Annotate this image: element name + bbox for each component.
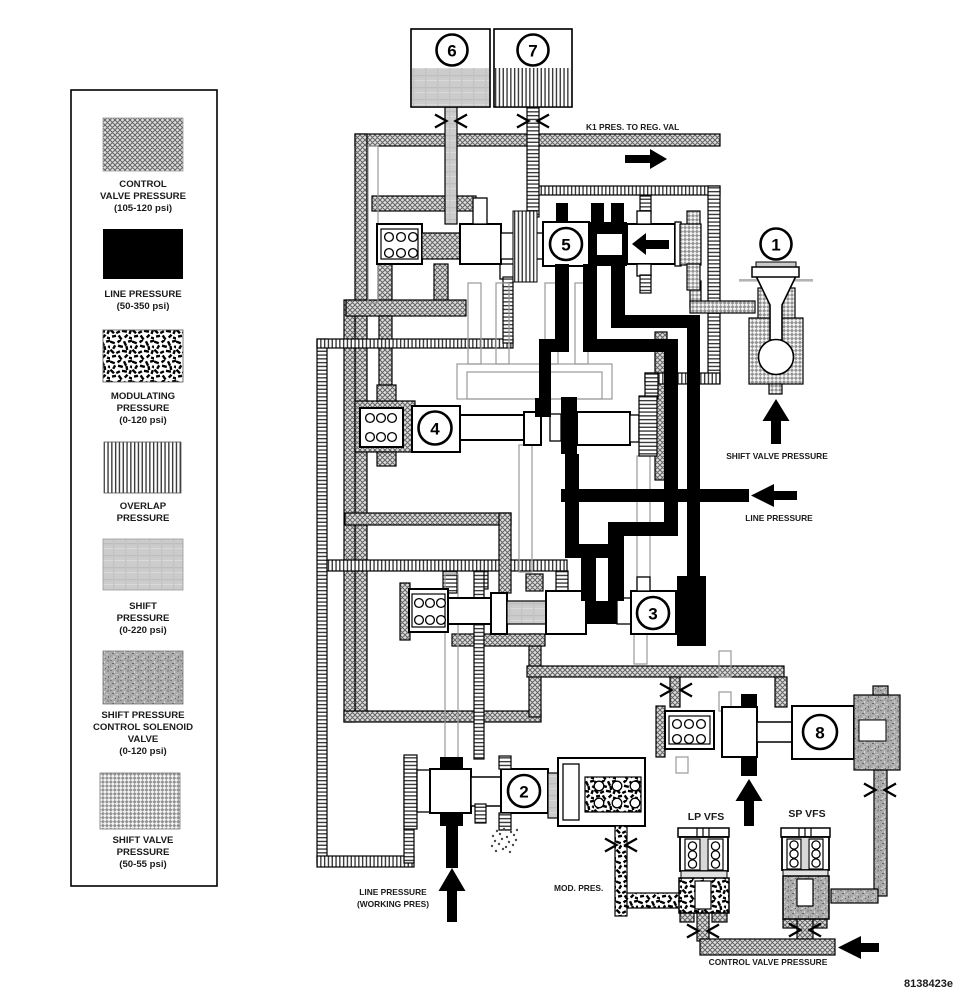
valve 5 lower wrap bar [346, 300, 466, 316]
orifice under solenoid 6 [435, 115, 467, 128]
solenoid box 7 [494, 29, 572, 107]
svg-text:1: 1 [771, 236, 780, 255]
label: working line pressure [357, 887, 429, 909]
valve 3 left hatched bracket [400, 583, 410, 640]
svg-text:7: 7 [528, 42, 537, 61]
wire: control-pressure riser under valve 3 [529, 634, 541, 717]
valve 3 black section [586, 601, 617, 624]
svg-text:PRESSURE: PRESSURE [117, 513, 170, 524]
label: K1 pressure [586, 122, 679, 132]
valve 2 bracket [417, 770, 430, 812]
svg-text:PRESSURE: PRESSURE [117, 847, 170, 858]
valve 3 white top stub [637, 577, 650, 591]
svg-text:8: 8 [815, 724, 824, 743]
legend swatch: line pressure [103, 229, 183, 312]
valve 8 solenoid box [665, 711, 714, 749]
svg-text:SHIFT: SHIFT [129, 601, 157, 612]
wire: overlap riser from valve 5 to main line [500, 264, 517, 343]
label: LP VFS [688, 811, 725, 823]
valve 1 funnel [756, 276, 796, 340]
valve 4 solenoid box [360, 408, 403, 447]
svg-text:CONTROL SOLENOID: CONTROL SOLENOID [93, 722, 193, 733]
valve 4 spool bar [460, 415, 524, 440]
svg-text:4: 4 [430, 420, 440, 439]
svg-text:SHIFT VALVE: SHIFT VALVE [113, 835, 175, 846]
wire: overlap left drop [317, 339, 327, 863]
svg-text:SHIFT PRESSURE: SHIFT PRESSURE [101, 710, 185, 721]
wire: main overlap line across [317, 339, 513, 348]
label: drawing number [904, 978, 953, 990]
wire: control valve pressure line [697, 911, 835, 955]
wire: drop to valve8 right end [775, 677, 787, 707]
wire: overlap bottom run [317, 856, 414, 867]
legend swatch: modulating pressure [103, 330, 183, 426]
svg-text:MOD. PRES.: MOD. PRES. [554, 883, 603, 893]
valve 5 white section [460, 224, 501, 264]
black line-pressure network [535, 264, 749, 601]
valve 2 overlap stubs [475, 756, 511, 830]
svg-text:6: 6 [447, 42, 456, 61]
ghost pipe beside K1 drop [368, 146, 378, 303]
orifice under LP VFS [687, 925, 719, 938]
legend swatch: shift pressure control solenoid valve [93, 651, 193, 757]
wire: overlap stub down to valve 3 [556, 571, 568, 591]
legend swatch: shift pressure [103, 539, 183, 636]
legend swatch: shift valve pressure [100, 773, 180, 870]
valve 4 numbered section [412, 406, 460, 452]
svg-text:CONTROL VALVE PRESSURE: CONTROL VALVE PRESSURE [709, 957, 828, 967]
svg-text:8138423e: 8138423e [904, 978, 953, 990]
valve 1 faint seat line [739, 279, 813, 282]
svg-text:CONTROL: CONTROL [119, 179, 167, 190]
svg-text:LP VFS: LP VFS [688, 811, 725, 823]
orifice under SP VFS [789, 924, 821, 937]
valve 8 connector [757, 722, 792, 742]
valve 3 solenoid box [409, 589, 448, 632]
wire: overlap stub into valve 4 end [645, 373, 658, 399]
wire: control-pressure run valve3 to valve8 [527, 666, 784, 677]
valve 2 black ports [440, 757, 463, 868]
valve 2 overlap end block [404, 755, 417, 829]
wire: bottom-left control-pressure run to riser [344, 711, 541, 722]
valve 1 checkered body [749, 288, 803, 384]
exhaust spray cloud [491, 828, 518, 853]
arrow: K1 flow right [625, 149, 667, 169]
valve 4 white block [524, 412, 541, 445]
wire: left control-pressure drop from K1 [355, 134, 367, 714]
valve 5 black section [589, 222, 627, 266]
wire: K1 main control-pressure line [355, 134, 720, 146]
valve 5 black bottom ports [556, 264, 623, 283]
valve 8 numbered section [792, 706, 854, 759]
wire: shift-valve-pressure drop from valve 5 end [690, 281, 701, 307]
svg-text:K1 PRES. TO REG. VAL: K1 PRES. TO REG. VAL [586, 122, 679, 132]
valve 3 spool bar [448, 598, 491, 624]
wire: modulating pipe down from accumulator [615, 826, 627, 916]
legend swatch: control valve pressure [100, 118, 187, 214]
valve 5 checkered end block [680, 211, 701, 290]
svg-text:(50-55 psi): (50-55 psi) [119, 859, 166, 870]
valve 4 long white block [577, 412, 630, 445]
circle 1 [761, 229, 792, 260]
valve 8 ghost stubs [676, 651, 731, 773]
svg-text:LINE PRESSURE: LINE PRESSURE [359, 887, 427, 897]
valve 3 shift section [507, 601, 546, 624]
svg-text:2: 2 [519, 783, 528, 802]
valve 5 arrow section [627, 222, 681, 266]
orifice on valve8 right pipe [864, 784, 896, 797]
ghost manifold above valve 4 [457, 283, 612, 399]
arrow: control pressure up to valve 8 [736, 779, 763, 826]
valve 3 piston [491, 593, 507, 634]
valve 2 shift block [548, 773, 558, 818]
wire: second left control-pressure drop [344, 300, 355, 722]
svg-text:VALVE: VALVE [128, 734, 159, 745]
svg-text:LINE PRESSURE: LINE PRESSURE [104, 289, 182, 300]
wire: overlap drop to valve 2 [474, 571, 484, 759]
valve 8 white block [722, 707, 757, 757]
orifice on modulating pipe [605, 839, 637, 852]
svg-text:(105-120 psi): (105-120 psi) [114, 203, 172, 214]
orifice on valve8 supply line [660, 684, 692, 697]
wire: overlap pipe solenoid 7 to valve 5 [527, 107, 539, 217]
valve 3 bottom port strip [452, 634, 545, 646]
solenoid box 6 [411, 29, 490, 107]
valve 4 mid bar [550, 414, 561, 441]
modulating pressure accumulator box [558, 758, 645, 826]
svg-text:PRESSURE: PRESSURE [117, 613, 170, 624]
svg-text:(0-220 psi): (0-220 psi) [119, 625, 166, 636]
label: shift valve pressure [726, 451, 828, 461]
wire: overlap run back left [645, 373, 720, 384]
wire: modulating pipe to LP VFS [627, 893, 680, 908]
label: SP VFS [788, 808, 825, 820]
SP VFS solenoid [781, 828, 830, 919]
valve 2 body [430, 769, 471, 813]
valve 5 numbered section [543, 222, 589, 266]
wire: shift-valve-pressure run to valve 1 [690, 301, 755, 313]
LP VFS solenoid [678, 828, 729, 913]
valve 1 ball [759, 340, 794, 375]
ghost stubs below valve 3 [634, 634, 647, 664]
svg-text:(WORKING PRES): (WORKING PRES) [357, 899, 429, 909]
svg-text:(0-120 psi): (0-120 psi) [119, 415, 166, 426]
label: control valve pressure [709, 957, 828, 967]
svg-text:SP VFS: SP VFS [788, 808, 825, 820]
wire: shift-pressure pipe solenoid 6 to valve 5 [445, 107, 457, 224]
wire: control-pressure drop to valve 4 [379, 316, 392, 406]
valve 5 black top ports [556, 203, 624, 222]
svg-text:MODULATING: MODULATING [111, 391, 175, 402]
arrow: working line pressure up [439, 868, 466, 922]
wire: overlap branch from solenoid 7 line [533, 186, 720, 195]
arrow: control valve pressure in [838, 936, 879, 959]
svg-text:VALVE PRESSURE: VALVE PRESSURE [100, 191, 187, 202]
svg-text:(50-350 psi): (50-350 psi) [117, 301, 170, 312]
orifice under solenoid 7 [517, 115, 549, 128]
SP VFS hatched feet [783, 919, 827, 928]
svg-text:3: 3 [648, 605, 657, 624]
valve 4 end bracket [630, 415, 639, 442]
wire: overlap line above valve 3 [322, 560, 567, 571]
valve 4 hatched wrap [355, 385, 415, 466]
valve 4 overlap end block [639, 396, 657, 456]
ghost pipes below valve 4 [519, 445, 650, 577]
label: mod pres [554, 883, 603, 893]
svg-text:SHIFT VALVE PRESSURE: SHIFT VALVE PRESSURE [726, 451, 828, 461]
wire: control-pressure line to valve 3 piston [345, 513, 511, 593]
wire: overlap riser to valve 2 [404, 758, 414, 863]
ghost pipe to valve 2 [445, 574, 458, 758]
valve 2 connector [471, 777, 501, 806]
LP VFS hatched feet [680, 911, 727, 922]
svg-text:(0-120 psi): (0-120 psi) [119, 746, 166, 757]
valve 1 bottom stub [769, 384, 782, 394]
svg-text:PRESSURE: PRESSURE [117, 403, 170, 414]
valve 5 overlap stubs [637, 196, 651, 293]
valve 8 noise end block [854, 686, 900, 770]
svg-text:LINE PRESSURE: LINE PRESSURE [745, 513, 813, 523]
valve 3 white bar [617, 598, 631, 624]
valve 2 numbered section [501, 769, 548, 813]
valve 8 hatched bracket [656, 706, 665, 757]
valve 1 top plug [752, 262, 799, 277]
valve 5 solenoid box [377, 224, 422, 264]
valve 5 striped connector [501, 211, 543, 282]
wire: control-pressure drop right of valve 4 [655, 332, 667, 480]
valve 3 top port stubs [443, 571, 543, 593]
circle 7 [518, 35, 549, 66]
wire: overlap drop at right [708, 186, 720, 382]
valve 3 white block [546, 591, 586, 634]
valve 3 numbered section [631, 591, 676, 634]
legend swatch: overlap pressure [104, 442, 181, 524]
wire: noise pipe valve 8 to SP VFS [831, 768, 887, 903]
legend panel box [71, 90, 217, 886]
label: line pressure [745, 513, 813, 523]
svg-text:5: 5 [561, 236, 570, 255]
arrow: shift valve pressure up [763, 399, 790, 444]
circle 6 [437, 35, 468, 66]
arrow: line pressure in (left-pointing) [751, 484, 797, 507]
wire: drop to valve8 solenoid with orifice [670, 677, 680, 707]
valve 8 black ports [741, 694, 757, 776]
valve 5 white top stub [473, 198, 487, 224]
valve 5 hatched connector [422, 233, 460, 259]
svg-text:OVERLAP: OVERLAP [120, 501, 167, 512]
valve 3 black end block [677, 576, 706, 646]
valve 5 lower wrap stubs [378, 264, 448, 306]
valve 5 top port strip [372, 196, 476, 211]
